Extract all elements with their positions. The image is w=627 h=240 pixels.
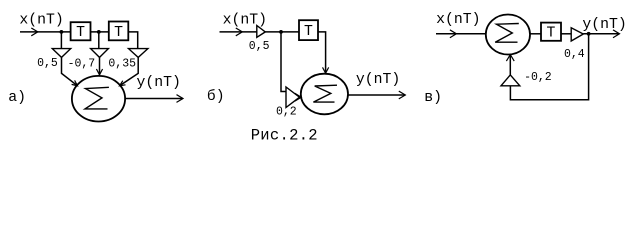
junction node b xyxy=(279,30,283,34)
svg-text:x(nT): x(nT) xyxy=(223,13,267,29)
adder U3 sigma circle xyxy=(486,15,530,55)
multiplier triangle -0,2 feedback xyxy=(501,75,520,86)
arrowhead into adder left a xyxy=(72,81,77,86)
svg-text:-0,2: -0,2 xyxy=(524,71,552,84)
svg-text:T: T xyxy=(547,25,556,41)
wire input v xyxy=(436,33,486,35)
multiplier triangle -0,7 xyxy=(91,49,109,58)
wire feedback v xyxy=(510,34,588,100)
arrowhead into adder top b xyxy=(323,68,329,73)
svg-text:T: T xyxy=(114,25,123,41)
arrowhead input b xyxy=(236,28,242,35)
delay block T v xyxy=(541,23,561,41)
multiplier triangle 0,4 xyxy=(571,28,583,41)
svg-text:0,5: 0,5 xyxy=(37,57,58,70)
wire input a xyxy=(20,31,71,33)
svg-text:а): а) xyxy=(8,90,26,106)
wire input b xyxy=(220,31,257,33)
wire node1 down to multiplier 0,5 xyxy=(60,32,62,49)
junction node 1 a xyxy=(60,30,64,34)
svg-text:Рис.2.2: Рис.2.2 xyxy=(251,127,318,145)
wire feedback multiplier to adder bottom xyxy=(509,55,511,75)
arrowhead input a xyxy=(32,28,38,35)
arrowhead output v xyxy=(614,30,620,37)
svg-text:0,5: 0,5 xyxy=(249,40,270,53)
multiplier triangle 0,5 b xyxy=(257,26,266,38)
wire multiplier to T b xyxy=(265,31,299,33)
adder U2 sigma circle xyxy=(301,74,348,115)
wire multiplier -0,7 to adder xyxy=(99,57,101,74)
svg-text:0,4: 0,4 xyxy=(564,48,585,61)
svg-text:T: T xyxy=(304,24,313,40)
wire T to multiplier 0,4 xyxy=(561,33,571,35)
delay block T1 xyxy=(71,22,91,40)
arrowhead output b xyxy=(399,91,405,98)
arrowhead output a xyxy=(177,95,183,102)
svg-text:0,35: 0,35 xyxy=(108,58,136,71)
svg-text:y(nT): y(nT) xyxy=(582,17,626,33)
arrowhead into adder bottom v xyxy=(507,55,514,61)
svg-text:y(nT): y(nT) xyxy=(356,72,400,88)
svg-text:б): б) xyxy=(207,88,225,105)
arrowhead into adder left b xyxy=(295,94,301,101)
wire T2 output to multiplier 0,35 xyxy=(128,32,137,49)
multiplier triangle 0,5 xyxy=(52,49,70,58)
wire output b xyxy=(348,94,405,96)
svg-text:x(nT): x(nT) xyxy=(19,13,63,29)
svg-text:y(nT): y(nT) xyxy=(137,75,181,91)
wire T output to adder top b xyxy=(318,32,326,73)
wire node down to multiplier 0,2 xyxy=(281,32,286,92)
delay block T2 xyxy=(109,22,129,41)
wire multiplier 0,5 to adder xyxy=(62,57,78,85)
adder U1 sigma circle xyxy=(72,76,125,122)
delay block T b xyxy=(299,20,318,40)
junction node 2 a xyxy=(97,30,101,34)
wire output a xyxy=(125,98,183,100)
wire output v xyxy=(583,33,619,35)
wire T1 to T2 xyxy=(91,31,109,33)
junction node v xyxy=(587,32,591,36)
arrowhead input v xyxy=(450,30,456,37)
svg-text:T: T xyxy=(76,25,85,41)
svg-text:-0,7: -0,7 xyxy=(68,58,96,71)
sigma glyph U1 xyxy=(85,87,109,109)
svg-text:в): в) xyxy=(424,90,442,106)
arrowhead into adder top a xyxy=(97,70,103,75)
wire node2 down to multiplier -0,7 xyxy=(98,32,100,49)
wire adder to T v xyxy=(530,33,541,35)
arrowhead into adder right a xyxy=(120,81,125,86)
svg-text:x(nT): x(nT) xyxy=(436,12,480,28)
sigma glyph U3 xyxy=(495,24,519,43)
multiplier triangle 0,2 xyxy=(286,87,300,108)
sigma glyph U2 xyxy=(313,85,337,102)
wire multiplier 0,35 to adder xyxy=(120,57,139,85)
multiplier triangle 0,35 xyxy=(129,49,148,58)
svg-text:0,2: 0,2 xyxy=(276,105,297,118)
